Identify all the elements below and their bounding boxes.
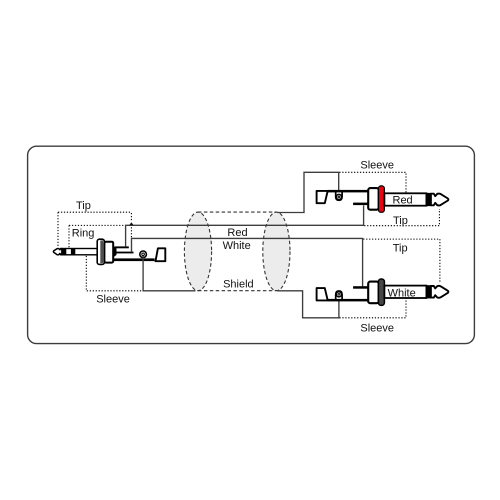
- bottom-right 1/4 inch plug (white): [317, 279, 449, 305]
- TRS body: [104, 242, 113, 263]
- screw head: [336, 194, 341, 199]
- clamp top bar: [328, 190, 369, 193]
- dotted label line: Tip right edge through wires: [130, 213, 132, 238]
- clamp top bar: [328, 299, 369, 302]
- svg-text:Shield: Shield: [223, 279, 254, 291]
- cable jacket top dashed line: [198, 211, 276, 213]
- top-right 1/4 inch plug (red): [317, 186, 449, 212]
- TRS shaft: [61, 249, 98, 255]
- svg-text:Tip: Tip: [393, 215, 408, 227]
- dotted label line: Sleeve (top-right plug): [339, 172, 406, 192]
- dotted label line: Tip (top-right plug): [364, 209, 439, 226]
- plug tip: [431, 286, 448, 298]
- svg-text:Sleeve: Sleeve: [360, 160, 394, 172]
- dotted label line: Ring box (left plug): [69, 225, 125, 247]
- svg-text:Red: Red: [227, 227, 247, 239]
- TRS ring solder lug: [115, 252, 134, 254]
- svg-text:Ring: Ring: [72, 228, 95, 240]
- tip solder lug: [353, 286, 369, 289]
- plug tip: [431, 194, 448, 206]
- white conductor wire: [132, 238, 363, 286]
- cable jacket bottom dashed line: [198, 290, 276, 292]
- TRS tip solder lug: [115, 246, 129, 248]
- bottom-right sleeve wire: [277, 291, 339, 318]
- dotted label line: Tip box (left plug): [58, 212, 131, 247]
- screw holder: [336, 191, 342, 200]
- screw head: [336, 292, 341, 297]
- left 3.5mm TRS plug: [53, 239, 165, 264]
- dotted label line: Tip (bottom-right plug): [363, 239, 440, 283]
- TRS sleeve strip: [113, 258, 155, 261]
- gray collar: [378, 279, 384, 305]
- plug shaft: [384, 193, 426, 205]
- clamp prong: [317, 288, 328, 300]
- cable jacket left ellipse: [184, 212, 211, 291]
- TRS insulator band 1: [61, 248, 66, 255]
- screw holder: [336, 291, 342, 300]
- svg-text:White: White: [388, 287, 416, 299]
- TRS tip: [53, 248, 62, 254]
- TRS clamp screw: [140, 251, 147, 258]
- svg-text:Tip: Tip: [76, 200, 91, 212]
- plug body: [368, 188, 379, 210]
- left sleeve wire: [143, 256, 195, 291]
- plug shaft: [384, 286, 426, 298]
- red collar: [378, 186, 384, 212]
- tip solder lug: [353, 203, 369, 206]
- clamp prong: [317, 191, 328, 203]
- cable jacket right ellipse: [263, 212, 290, 291]
- shaft insulator band: [426, 285, 431, 298]
- plug body: [368, 282, 379, 304]
- svg-text:Tip: Tip: [393, 243, 408, 255]
- dotted label line: Sleeve (left plug): [86, 256, 142, 291]
- dotted label line: Sleeve (bottom-right plug): [339, 298, 406, 318]
- svg-text:White: White: [223, 240, 251, 252]
- top-right sleeve wire: [277, 172, 338, 212]
- svg-text:Red: Red: [393, 194, 413, 206]
- TRS body black wedge: [113, 246, 117, 258]
- arrow at red wire junction: [129, 222, 133, 225]
- shaft insulator band: [426, 193, 431, 206]
- TRS strain relief prong: [156, 248, 166, 261]
- red conductor wire: [126, 205, 364, 246]
- svg-text:Sleeve: Sleeve: [360, 322, 394, 334]
- TRS insulator band 2: [71, 248, 75, 255]
- border frame: [28, 146, 475, 343]
- TRS collar disc: [97, 239, 104, 264]
- svg-text:Sleeve: Sleeve: [96, 294, 130, 306]
- TRS collar shading stripe: [100, 240, 103, 263]
